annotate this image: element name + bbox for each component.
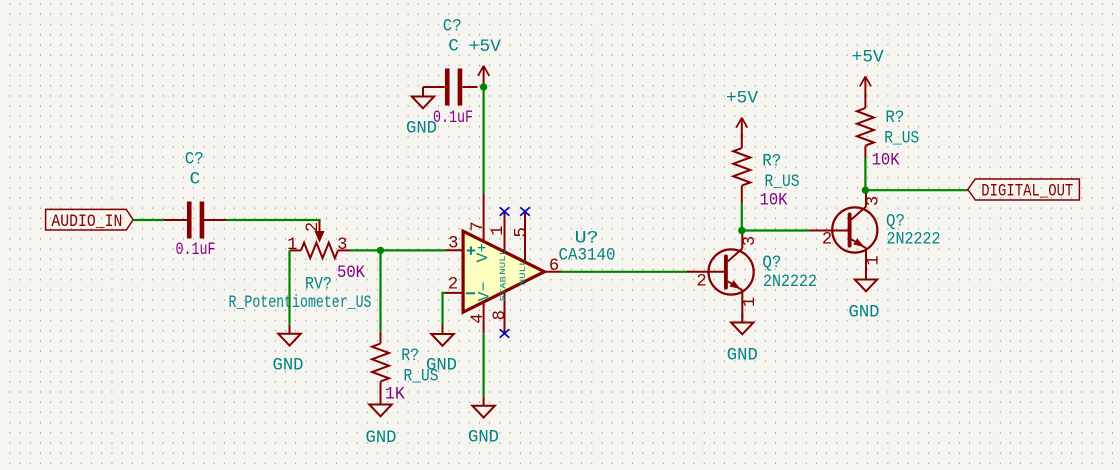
R2 body zigzag [733, 148, 750, 186]
wire RV1 pin3 to U1 pin3 [350, 249, 446, 251]
R3 body zigzag [857, 108, 874, 146]
Q2 base pin 2 [810, 230, 851, 232]
svg-text:GND: GND [406, 119, 437, 139]
svg-text:C?: C? [185, 149, 204, 169]
U1 pin 8 [491, 292, 510, 334]
Q2 collector pin 3 [865, 190, 867, 206]
U1 pin 2 [446, 275, 464, 294]
potentiometer RV1 [229, 221, 372, 313]
R2 pin lead 2 [741, 134, 743, 148]
svg-text:3: 3 [337, 236, 347, 255]
GND symbol [442, 325, 444, 335]
RV1 pin 3 [338, 249, 350, 251]
wire Q1 collector to Q2 base [742, 229, 810, 231]
Q2 body [832, 207, 877, 252]
svg-text:2N2222: 2N2222 [763, 272, 817, 292]
wire Q1 collector to R2 [741, 203, 743, 231]
svg-text:NULL: NULL [518, 259, 528, 285]
svg-text:+5V: +5V [852, 47, 884, 67]
junction at +5V bypass node [480, 83, 487, 90]
capacitor C2 [423, 17, 478, 106]
junction at Q2 collector [862, 187, 869, 194]
svg-text:STAB: STAB [499, 276, 509, 301]
RV1 pin 1 [290, 249, 302, 251]
GND symbol [422, 87, 424, 97]
wire Q2 collector to DIGITAL_OUT [865, 189, 967, 191]
svg-text:3: 3 [865, 196, 884, 206]
svg-text:50K: 50K [337, 263, 365, 283]
C2 plates [445, 69, 450, 106]
RV1 body zigzag [301, 243, 338, 259]
ground below Q1 [727, 313, 758, 365]
svg-text:CA3140: CA3140 [559, 246, 616, 266]
U1 pin 4 [469, 302, 488, 333]
Q1 body [709, 249, 754, 294]
resistor R1 [372, 332, 439, 395]
U1 pin 1 [489, 212, 508, 253]
svg-text:1K: 1K [385, 385, 405, 405]
svg-text:GND: GND [468, 428, 499, 448]
wire U1 pin4 to ground [483, 333, 485, 396]
svg-text:0.1uF: 0.1uF [433, 108, 473, 128]
svg-text:10K: 10K [760, 191, 788, 211]
wire node down to R1 [379, 250, 381, 331]
svg-text:6: 6 [549, 257, 559, 276]
ground below C2 [406, 87, 437, 139]
svg-text:Q?: Q? [762, 253, 781, 273]
wire RV1 pin1 down [288, 250, 290, 324]
ground below RV1 [273, 324, 304, 375]
wire Q2 collector to R3 [864, 158, 866, 191]
GND symbol [289, 324, 291, 334]
R3 pin lead 2 [864, 94, 866, 108]
R3 pin lead [864, 146, 866, 158]
ground below Q2 [849, 270, 880, 323]
svg-text:DIGITAL_OUT: DIGITAL_OUT [981, 182, 1073, 202]
U1 pin 3 [446, 234, 464, 253]
Q2 emitter pin 1 [865, 248, 867, 278]
svg-text:2N2222: 2N2222 [887, 230, 941, 250]
GND symbol [380, 395, 382, 405]
svg-text:RV?: RV? [305, 274, 332, 294]
svg-text:GND: GND [366, 428, 397, 448]
R1 pin lead 2 [380, 382, 382, 396]
R1 body zigzag [372, 344, 389, 382]
transistor Q2 [810, 190, 941, 278]
svg-text:R?: R? [401, 346, 419, 366]
svg-text:NULL: NULL [498, 249, 508, 275]
Q1 collector pin 3 [741, 231, 743, 249]
C2 pin 1 [423, 86, 445, 88]
wire +5V node down to U1 pin7 [483, 87, 485, 194]
svg-text:R_US: R_US [765, 172, 800, 192]
svg-text:+5V: +5V [469, 37, 501, 57]
global label DIGITAL_OUT [968, 179, 1080, 202]
svg-text:V−: V− [476, 282, 494, 302]
U1 plus sign [467, 246, 476, 255]
resistor R3 [857, 94, 919, 157]
svg-text:V+: V+ [474, 243, 492, 263]
wire AUDIO_IN to C1 [133, 219, 164, 221]
svg-text:8: 8 [491, 310, 510, 320]
U1 minus sign [466, 292, 475, 294]
no-connect U1 pin 5 [520, 207, 530, 216]
wire C1 to RV1 wiper [227, 220, 320, 222]
svg-text:GND: GND [727, 345, 758, 365]
svg-text:R?: R? [762, 151, 781, 171]
op-amp U1 triangle body [463, 231, 544, 312]
svg-text:2: 2 [696, 272, 706, 291]
U1 pin 6 output [544, 257, 561, 276]
svg-text:0.1uF: 0.1uF [176, 240, 216, 260]
svg-text:2: 2 [822, 230, 832, 249]
svg-text:1: 1 [865, 255, 884, 265]
svg-text:3: 3 [448, 234, 458, 253]
U1 pin 7 [469, 194, 488, 241]
GND symbol [741, 313, 743, 323]
svg-text:1: 1 [489, 225, 508, 235]
svg-text:7: 7 [469, 221, 488, 231]
R1 pin lead [380, 332, 382, 344]
ground below U1 pin2 [426, 325, 457, 376]
svg-text:C: C [448, 36, 459, 56]
svg-text:+5V: +5V [726, 88, 758, 108]
svg-text:1: 1 [741, 297, 760, 307]
no-connect U1 pin 8 [500, 329, 510, 338]
svg-text:GND: GND [426, 356, 457, 376]
U1 pin 5 [513, 212, 532, 263]
power +5V at R2 [726, 88, 758, 138]
C2 pin 2 [463, 86, 478, 88]
svg-text:3: 3 [741, 236, 760, 246]
C1 pin 1 [164, 219, 191, 221]
svg-text:C: C [190, 170, 201, 190]
power +5V at C2 [469, 37, 501, 87]
C1 plates [187, 202, 192, 239]
svg-text:10K: 10K [872, 151, 900, 171]
no-connect U1 pin 1 [500, 207, 510, 216]
svg-text:R_Potentiometer_US: R_Potentiometer_US [229, 293, 372, 313]
Q1 base pin 2 [687, 271, 728, 273]
ground below R1 [366, 395, 397, 448]
RV1 pin 2 wiper arrow [319, 221, 321, 233]
junction at Q1 collector [738, 227, 745, 234]
svg-text:GND: GND [849, 303, 880, 323]
svg-text:R?: R? [885, 108, 904, 128]
transistor Q1 [687, 231, 818, 320]
svg-text:GND: GND [273, 356, 304, 376]
global label AUDIO_IN [46, 209, 134, 232]
svg-text:5: 5 [513, 227, 532, 237]
Q1 emitter pin 1 [741, 290, 743, 319]
GND symbol [865, 270, 867, 280]
C1 pin 2 [200, 219, 227, 221]
GND symbol [483, 396, 485, 406]
svg-text:2: 2 [448, 275, 458, 294]
capacitor C1 [164, 149, 227, 238]
svg-text:AUDIO_IN: AUDIO_IN [51, 212, 122, 232]
wire U1 pin6 to Q1 base [562, 271, 687, 273]
ground below U1 pin4 [468, 396, 499, 447]
junction at RV1 output node [377, 247, 384, 254]
svg-text:2: 2 [304, 222, 323, 232]
wire U1 pin2 to ground [443, 293, 446, 325]
svg-text:4: 4 [469, 313, 488, 323]
svg-text:C?: C? [443, 17, 462, 37]
resistor R2 [733, 134, 799, 203]
R2 pin lead [741, 186, 743, 203]
svg-text:R_US: R_US [884, 128, 919, 148]
power +5V at R3 [852, 47, 884, 97]
